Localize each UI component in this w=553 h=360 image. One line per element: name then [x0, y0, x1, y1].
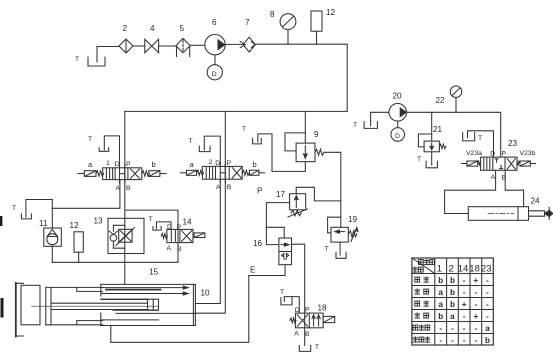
svg-text:P: P [257, 187, 263, 196]
pressure gauge 8 [270, 10, 296, 44]
svg-text:-: - [463, 324, 466, 333]
svg-text:A: A [294, 331, 299, 338]
svg-text:B: B [126, 185, 131, 192]
filter 2 [119, 24, 133, 53]
svg-text:18: 18 [469, 263, 480, 274]
relief valve 21 [418, 112, 446, 152]
svg-text:+: + [473, 276, 478, 285]
cylinder 15 left chamber [21, 285, 51, 325]
svg-text:a: a [438, 300, 443, 309]
svg-text:T: T [478, 135, 482, 142]
svg-text:D: D [115, 161, 120, 168]
svg-text:-: - [474, 300, 477, 309]
svg-text:17: 17 [276, 190, 286, 199]
wire A of valve 1 [52, 180, 120, 209]
table header: solenoid / action [413, 259, 435, 272]
svg-text:-: - [463, 312, 466, 321]
valve 18 [290, 304, 335, 339]
tank (drain of 9) [242, 126, 261, 144]
pressure relay 16 [253, 238, 292, 265]
svg-text:P: P [177, 224, 182, 231]
wire P to valve 1 and through to cylinder (B line) [124, 111, 126, 284]
wire manifold to relief valve 9 [304, 111, 306, 143]
svg-text:T: T [149, 216, 153, 223]
drain of 9 to tank [258, 134, 306, 172]
svg-text:T: T [242, 126, 246, 133]
one-way throttle 13 [94, 217, 145, 254]
svg-text:2: 2 [123, 24, 128, 33]
drain of 21 to tank [417, 152, 437, 168]
svg-text:5: 5 [180, 24, 185, 33]
svg-text:D: D [215, 160, 220, 167]
wire 11 bottom to collector [51, 246, 53, 262]
filter 5 [176, 24, 190, 57]
solenoid V23b [517, 150, 536, 166]
tank T (suction, top-left) [75, 47, 120, 67]
svg-text:-: - [474, 324, 477, 333]
pump 6 [205, 18, 225, 55]
valve 1 labels [106, 160, 131, 192]
relief valve 9 [285, 130, 324, 162]
shut-off valve 4 [145, 24, 159, 53]
solenoid b of valve 1 [142, 160, 166, 176]
svg-text:b: b [450, 288, 455, 297]
cylinder 15 internals [32, 286, 196, 320]
valve 2 body [202, 163, 242, 183]
svg-text:B: B [227, 184, 232, 191]
scan artifact marks [0, 216, 2, 226]
wire P to valve 2 (B line down to cylinder) [195, 111, 225, 313]
wire [190, 44, 205, 46]
svg-text:D: D [395, 133, 400, 140]
svg-text:9: 9 [314, 130, 319, 139]
svg-text:V23a: V23a [466, 150, 482, 157]
table values [438, 276, 490, 345]
drain of 19 to tank [325, 242, 347, 258]
svg-text:-: - [463, 336, 466, 345]
svg-text:19: 19 [348, 215, 358, 224]
tank below valve 18 [299, 344, 319, 351]
wire A of valve 23 to cylinder 24 [445, 170, 496, 213]
svg-text:V23b: V23b [520, 150, 536, 157]
svg-text:-: - [486, 312, 489, 321]
svg-text:16: 16 [253, 239, 263, 248]
svg-text:a: a [88, 160, 93, 169]
svg-text:b: b [450, 300, 455, 309]
svg-text:8: 8 [270, 10, 275, 19]
svg-text:21: 21 [433, 125, 443, 134]
wire 16 bottom to E [249, 265, 285, 276]
svg-text:12: 12 [326, 8, 336, 17]
wire A of valve 2 to cylinder [195, 179, 220, 303]
table header: valve numbers 1 2 14 18 23 [437, 263, 492, 274]
valve 14 [161, 218, 205, 254]
svg-text:P: P [502, 151, 507, 158]
tank (suction of pump 20) [353, 112, 389, 129]
svg-text:D: D [212, 71, 217, 78]
svg-text:T: T [417, 156, 421, 163]
tank above valve 14 [149, 216, 172, 230]
svg-text:P: P [227, 160, 232, 167]
svg-text:10: 10 [201, 289, 211, 298]
svg-text:-: - [439, 324, 442, 333]
throttle inside 13 [119, 229, 132, 242]
svg-text:E: E [250, 266, 256, 275]
svg-text:b: b [485, 336, 490, 345]
svg-text:b: b [152, 160, 156, 169]
svg-text:P: P [305, 307, 310, 314]
tank above valve 1 [88, 136, 120, 168]
pump 20 [389, 92, 407, 122]
return wire E bottom [111, 276, 249, 343]
reducing valve 17 [257, 187, 308, 218]
svg-text:A: A [167, 245, 172, 252]
tank above valve 18 [280, 289, 299, 313]
svg-text:a: a [450, 312, 455, 321]
solenoid V23a [462, 150, 483, 166]
check valve 7 [240, 18, 255, 52]
svg-text:2: 2 [209, 159, 213, 166]
relief valve 19 [328, 215, 358, 242]
svg-text:-: - [486, 300, 489, 309]
svg-text:12: 12 [70, 221, 80, 230]
svg-text:23: 23 [481, 263, 492, 274]
solenoid action table [412, 258, 493, 345]
svg-text:T: T [325, 246, 329, 253]
wire branch B to valve 14 [125, 210, 178, 262]
svg-text:T: T [12, 205, 16, 212]
svg-text:b: b [438, 312, 443, 321]
svg-text:-: - [486, 276, 489, 285]
svg-text:D: D [167, 224, 172, 231]
tank above valve 2 [189, 136, 221, 166]
wire 17 left / P vertical [266, 203, 289, 245]
svg-text:22: 22 [436, 96, 446, 105]
wire branch to 16 top [266, 227, 284, 238]
svg-text:2: 2 [449, 263, 454, 274]
svg-text:b: b [253, 160, 257, 169]
solenoid a of valve 1 [78, 160, 104, 176]
svg-text:7: 7 [245, 18, 250, 27]
valve 23 labels [490, 139, 517, 182]
wire [225, 43, 243, 45]
pilot check valve 11 [39, 200, 61, 247]
cylinder 15 bottom port [110, 326, 112, 343]
wire 9 spring to 19 [324, 152, 341, 227]
svg-text:14: 14 [458, 263, 469, 274]
svg-text:24: 24 [531, 197, 541, 206]
solenoid a of valve 2 [181, 160, 204, 175]
check valve inside 13 [110, 235, 117, 242]
cylinder 15 barrel [101, 284, 196, 325]
wire [133, 45, 145, 47]
svg-text:a: a [190, 160, 195, 169]
svg-text:B: B [305, 331, 310, 338]
svg-text:20: 20 [393, 92, 403, 101]
valve 1 body [103, 165, 142, 184]
svg-text:-: - [451, 336, 454, 345]
manifold wire [125, 110, 347, 112]
wire 17 top to 19 inlet [296, 187, 341, 201]
component 12 (lower block) [70, 221, 84, 262]
tank T (left, drain) [12, 200, 52, 219]
svg-text:D: D [490, 151, 495, 158]
motor of pump 6 [207, 55, 222, 80]
svg-text:15: 15 [149, 268, 159, 277]
valve 2 labels [209, 159, 232, 191]
svg-text:a: a [485, 324, 490, 333]
svg-text:23: 23 [508, 139, 518, 148]
svg-text:+: + [462, 300, 467, 309]
collector wire (bottom, to P vertical) [52, 261, 178, 263]
svg-text:4: 4 [150, 24, 155, 33]
svg-text:+: + [473, 312, 478, 321]
svg-text:T: T [75, 56, 79, 63]
svg-text:-: - [463, 288, 466, 297]
svg-text:-: - [451, 324, 454, 333]
svg-text:1: 1 [437, 263, 442, 274]
svg-text:T: T [315, 344, 319, 351]
svg-text:1: 1 [106, 160, 110, 167]
svg-text:-: - [439, 336, 442, 345]
svg-text:-: - [463, 276, 466, 285]
motor of pump 20 [391, 121, 405, 141]
svg-text:b: b [438, 276, 443, 285]
table row labels [413, 277, 430, 343]
svg-text:13: 13 [94, 217, 104, 226]
svg-text:P: P [126, 161, 131, 168]
cylinder 15 lower tube [46, 321, 103, 325]
svg-text:14: 14 [183, 218, 193, 227]
solenoid b of valve 2 [242, 160, 264, 175]
cylinder 24 [468, 197, 553, 221]
svg-text:a: a [438, 288, 443, 297]
accumulator 12 [311, 8, 336, 44]
svg-text:B: B [502, 175, 507, 182]
svg-text:6: 6 [212, 18, 217, 27]
svg-text:18: 18 [318, 304, 328, 313]
svg-text:B: B [177, 246, 182, 253]
pressure gauge 22 [436, 86, 462, 112]
svg-text:T: T [88, 136, 92, 143]
wire [159, 45, 176, 47]
svg-text:b: b [450, 276, 455, 285]
svg-text:-: - [486, 288, 489, 297]
cylinder 15 upper tube [46, 287, 103, 291]
main pressure wire [255, 44, 347, 111]
wire 16 right to valve 18 [292, 244, 305, 345]
svg-text:D: D [295, 307, 300, 314]
svg-text:T: T [280, 289, 284, 296]
svg-text:T: T [353, 122, 357, 129]
valve 23 body [481, 157, 517, 170]
cylinder 15 mounting flange [16, 283, 24, 337]
svg-text:11: 11 [39, 219, 48, 228]
wire B of valve 23 to cylinder 24 [505, 170, 523, 206]
svg-text:A: A [491, 174, 496, 181]
tank above valve 23 [463, 131, 494, 157]
main wire right circuit [407, 112, 501, 157]
svg-text:T: T [189, 138, 193, 145]
svg-text:-: - [474, 288, 477, 297]
svg-text:-: - [474, 336, 477, 345]
